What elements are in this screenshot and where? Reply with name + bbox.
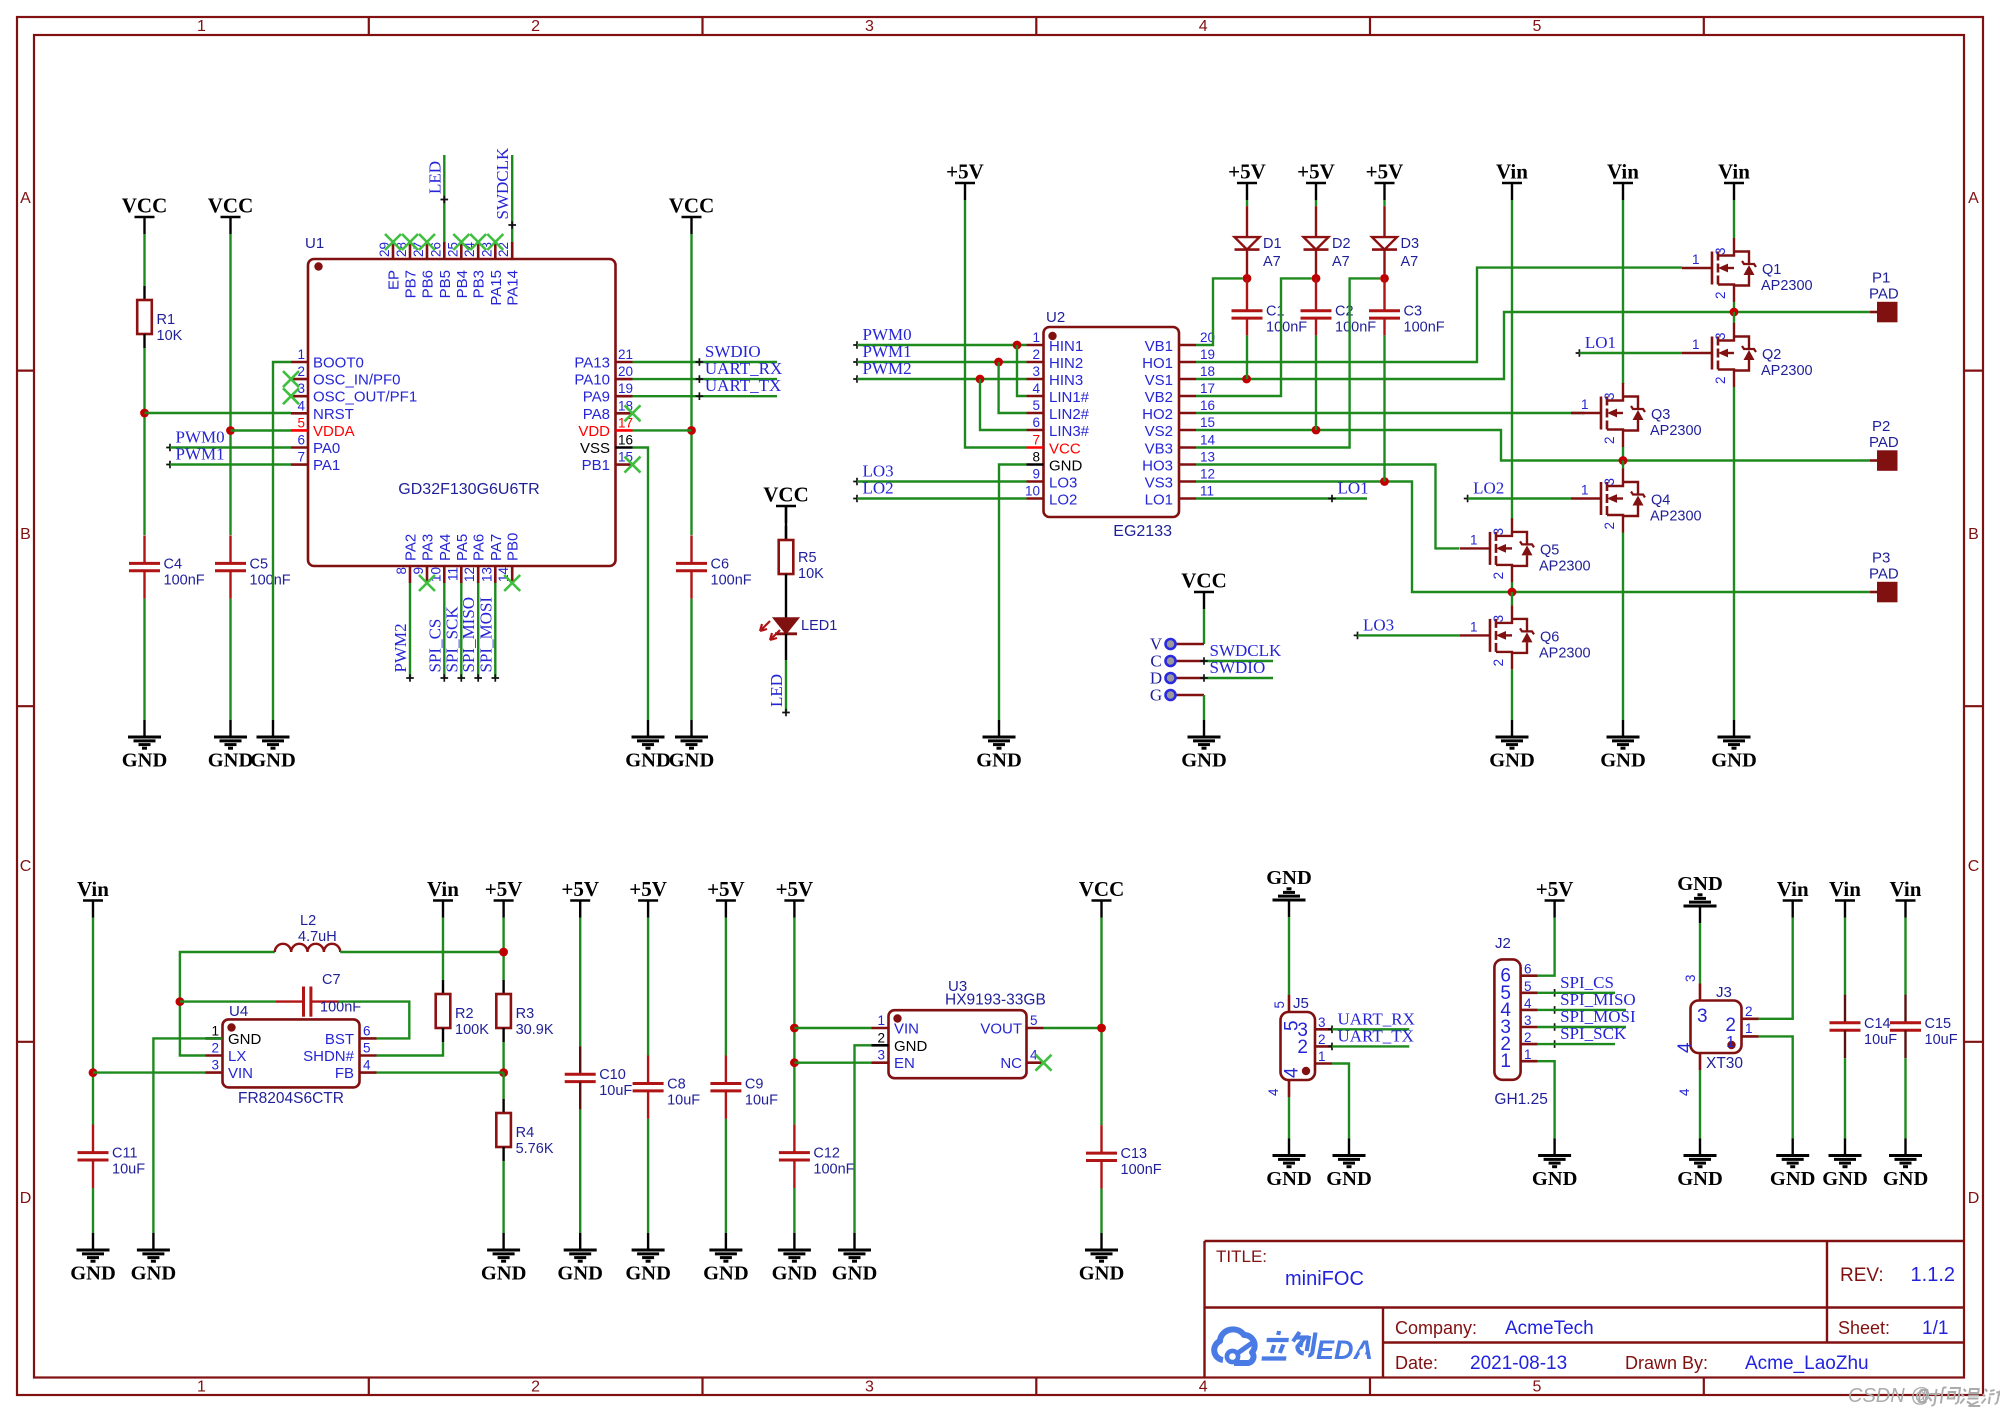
svg-text:VCC: VCC bbox=[208, 194, 254, 218]
svg-text:AP2300: AP2300 bbox=[1761, 363, 1813, 379]
svg-text:2: 2 bbox=[1491, 659, 1506, 667]
net label SPI_MISO bbox=[459, 597, 482, 682]
svg-text:REV:: REV: bbox=[1840, 1265, 1884, 1286]
svg-text:C9: C9 bbox=[745, 1077, 764, 1093]
svg-text:U2: U2 bbox=[1046, 309, 1065, 326]
svg-text:4: 4 bbox=[297, 398, 305, 413]
wire Vin to U4 VIN bbox=[93, 1071, 206, 1073]
svg-text:VS3: VS3 bbox=[1145, 475, 1173, 492]
wire C9 to ground bbox=[725, 1119, 727, 1233]
capacitor C3 top lead bbox=[1383, 278, 1385, 310]
wire C7 to BST bbox=[339, 1002, 410, 1039]
junction U3 VIN bbox=[790, 1024, 799, 1033]
svg-text:3: 3 bbox=[877, 1048, 885, 1063]
power symbol VCC bbox=[208, 194, 254, 235]
svg-text:+5V: +5V bbox=[1366, 160, 1404, 184]
svg-text:PAD: PAD bbox=[1869, 286, 1899, 303]
wire LO1 to Q2 gate bbox=[1579, 352, 1682, 354]
svg-text:2: 2 bbox=[1713, 376, 1728, 384]
svg-text:PA10: PA10 bbox=[574, 372, 610, 389]
net label UART_RX bbox=[1328, 1009, 1415, 1033]
svg-text:Vin: Vin bbox=[1829, 877, 1861, 901]
svg-text:VB2: VB2 bbox=[1145, 389, 1173, 406]
svg-text:100K: 100K bbox=[455, 1022, 489, 1038]
power symbol +5V bbox=[629, 877, 667, 918]
svg-text:GND: GND bbox=[1079, 1263, 1125, 1285]
wire UART_TX J5 bbox=[1332, 1045, 1409, 1047]
svg-text:30.9K: 30.9K bbox=[516, 1022, 554, 1038]
ground bbox=[625, 720, 671, 772]
wire C10 to ground bbox=[579, 1110, 581, 1233]
svg-text:D: D bbox=[1968, 1190, 1980, 1207]
power symbol VCC bbox=[669, 194, 715, 235]
svg-text:Vin: Vin bbox=[427, 877, 459, 901]
wire C14 to ground bbox=[1844, 1058, 1846, 1138]
junction C1/VS1 bbox=[1242, 375, 1251, 384]
svg-text:BST: BST bbox=[325, 1031, 354, 1048]
wire VOUT to VCC rail bbox=[1044, 1027, 1102, 1029]
svg-text:AP2300: AP2300 bbox=[1650, 423, 1702, 439]
wire Vin to R2 bbox=[442, 918, 444, 981]
svg-text:PA3: PA3 bbox=[420, 534, 437, 561]
svg-text:C13: C13 bbox=[1121, 1146, 1148, 1162]
power symbol +5V bbox=[561, 877, 599, 918]
svg-text:GND: GND bbox=[481, 1263, 527, 1285]
svg-text:100nF: 100nF bbox=[250, 572, 291, 588]
wire VCC rail 2 bbox=[229, 234, 231, 535]
svg-text:HO1: HO1 bbox=[1142, 355, 1173, 372]
wire VSS to ground bbox=[633, 448, 649, 721]
wire R2 to SHDN# bbox=[377, 1042, 444, 1056]
wire J3 pin2 to Vin bbox=[1759, 918, 1793, 1019]
wire LO3 to Q6 gate bbox=[1358, 634, 1461, 636]
wire C8 to ground bbox=[647, 1119, 649, 1233]
svg-text:19: 19 bbox=[618, 381, 633, 396]
U1 left pins bbox=[291, 347, 417, 474]
junction NRST/VCC rail bbox=[140, 409, 149, 418]
no-connect U1 pin 2 bbox=[283, 371, 299, 387]
svg-text:2: 2 bbox=[1725, 1015, 1736, 1036]
capacitor C4 bbox=[129, 535, 205, 598]
svg-text:Vin: Vin bbox=[1777, 877, 1809, 901]
svg-text:10uF: 10uF bbox=[1925, 1032, 1958, 1048]
svg-text:PA15: PA15 bbox=[488, 270, 505, 306]
ground bbox=[1600, 720, 1646, 772]
svg-text:R2: R2 bbox=[455, 1006, 474, 1022]
svg-text:6: 6 bbox=[297, 433, 305, 448]
wire LX to L2 bbox=[180, 952, 275, 1056]
svg-text:3: 3 bbox=[1713, 247, 1728, 255]
wire +5V to L2/R3 bbox=[502, 918, 504, 981]
power symbol +5V bbox=[707, 877, 745, 918]
wire C6 to ground bbox=[690, 599, 692, 720]
wire LO1 stub bbox=[1196, 497, 1367, 499]
border row ticks bbox=[17, 371, 1983, 1042]
wire LIN2# bbox=[999, 362, 1027, 413]
svg-text:4: 4 bbox=[1677, 1088, 1692, 1096]
svg-text:PWM2: PWM2 bbox=[863, 359, 912, 378]
transistor Q2 bbox=[1682, 323, 1813, 387]
EasyEDA logo bbox=[1214, 1329, 1254, 1363]
svg-text:6: 6 bbox=[1524, 962, 1532, 977]
svg-text:C15: C15 bbox=[1925, 1016, 1952, 1032]
junction Vin/U4 bbox=[89, 1068, 98, 1077]
junction LX/C7 bbox=[176, 997, 185, 1006]
wire VCC rail bbox=[1100, 918, 1102, 1126]
wire SWDCLK pad bbox=[1204, 660, 1273, 662]
svg-text:VCC: VCC bbox=[1079, 877, 1125, 901]
svg-text:7: 7 bbox=[1032, 433, 1040, 448]
svg-text:5: 5 bbox=[1533, 1379, 1542, 1396]
wire SPI_SCK bbox=[460, 583, 462, 678]
svg-text:A7: A7 bbox=[1263, 254, 1281, 270]
svg-text:FR8204S6CTR: FR8204S6CTR bbox=[238, 1090, 344, 1107]
svg-text:LO2: LO2 bbox=[1473, 479, 1504, 498]
svg-text:LO2: LO2 bbox=[1049, 492, 1077, 509]
wire SPI_CS bbox=[1538, 992, 1615, 994]
ground bbox=[772, 1233, 818, 1285]
svg-text:AP2300: AP2300 bbox=[1539, 558, 1591, 574]
svg-text:VOUT: VOUT bbox=[980, 1021, 1022, 1038]
net label LO1 bbox=[1576, 333, 1616, 357]
svg-text:GND: GND bbox=[703, 1263, 749, 1285]
svg-text:2: 2 bbox=[1297, 1037, 1308, 1058]
svg-text:AP2300: AP2300 bbox=[1650, 509, 1702, 525]
svg-text:+5V: +5V bbox=[1228, 160, 1266, 184]
svg-text:SHDN#: SHDN# bbox=[303, 1048, 355, 1065]
mcu U1 body bbox=[305, 235, 616, 566]
wire SWDIO bbox=[633, 361, 778, 363]
wire C15 to ground bbox=[1904, 1058, 1906, 1138]
svg-text:4: 4 bbox=[1282, 1067, 1303, 1078]
svg-text:Company:: Company: bbox=[1395, 1318, 1477, 1338]
wire SPI_MOSI bbox=[494, 583, 496, 678]
capacitor C15 bbox=[1890, 995, 1958, 1058]
svg-text:AP2300: AP2300 bbox=[1539, 645, 1591, 661]
wire C11 to ground bbox=[92, 1188, 94, 1233]
net label UART_TX bbox=[696, 376, 782, 400]
wire LED net bbox=[443, 155, 445, 242]
wire VCC to V pad bbox=[1203, 609, 1205, 644]
svg-text:PB6: PB6 bbox=[420, 270, 437, 298]
wire +5V to D2 bbox=[1315, 200, 1317, 206]
svg-text:A7: A7 bbox=[1401, 254, 1419, 270]
svg-text:GND: GND bbox=[1770, 1168, 1816, 1190]
svg-text:C3: C3 bbox=[1404, 304, 1423, 320]
svg-text:GND: GND bbox=[894, 1038, 928, 1055]
svg-text:10uF: 10uF bbox=[112, 1162, 145, 1178]
svg-text:HO3: HO3 bbox=[1142, 458, 1173, 475]
border column ticks top bbox=[369, 17, 1704, 1395]
wire C1 to VS1 bbox=[1246, 335, 1248, 379]
svg-text:PWM2: PWM2 bbox=[391, 623, 410, 672]
net label SPI_SCK bbox=[442, 606, 465, 682]
no-connect U1 pin 23 bbox=[487, 234, 503, 250]
wire +5V to U2 VCC bbox=[965, 200, 1027, 448]
svg-text:U1: U1 bbox=[305, 235, 324, 252]
svg-text:C4: C4 bbox=[164, 556, 183, 572]
svg-text:Q5: Q5 bbox=[1540, 542, 1559, 558]
svg-text:PAD: PAD bbox=[1869, 566, 1899, 583]
svg-text:3: 3 bbox=[211, 1058, 219, 1073]
wire FB to R4 bbox=[502, 1073, 504, 1099]
svg-text:A: A bbox=[1968, 190, 1979, 207]
wire PWM1 bbox=[170, 463, 291, 465]
svg-text:NRST: NRST bbox=[313, 406, 354, 423]
junction bbox=[1013, 341, 1022, 350]
U3 right pins bbox=[980, 1013, 1043, 1072]
power symbol Vin bbox=[1496, 160, 1528, 201]
wire VB1 bbox=[1196, 278, 1243, 345]
capacitor C2 bbox=[1301, 304, 1377, 336]
capacitor C8 bbox=[633, 1056, 701, 1119]
svg-text:13: 13 bbox=[479, 567, 494, 582]
svg-text:GH1.25: GH1.25 bbox=[1494, 1091, 1547, 1108]
wire LO2 to Q4 gate bbox=[1468, 497, 1571, 499]
power symbol +5V bbox=[1228, 160, 1266, 201]
ground bbox=[669, 720, 715, 772]
svg-text:C7: C7 bbox=[322, 972, 341, 988]
wire +5V to D3 bbox=[1383, 200, 1385, 206]
junction VOUT bbox=[1097, 1024, 1106, 1033]
wire HO2 bbox=[1196, 412, 1585, 414]
power symbol VCC bbox=[763, 483, 809, 524]
svg-text:LX: LX bbox=[228, 1048, 246, 1065]
capacitor C3 bbox=[1369, 304, 1445, 336]
junction D1/C1 bbox=[1243, 274, 1252, 283]
junction bbox=[976, 375, 985, 384]
svg-text:PA0: PA0 bbox=[313, 440, 340, 457]
ground bbox=[208, 720, 254, 772]
junction D2/C2 bbox=[1312, 274, 1321, 283]
wire Vin rail to Q3 bbox=[1622, 200, 1624, 384]
svg-text:5: 5 bbox=[1030, 1013, 1038, 1028]
svg-text:4: 4 bbox=[1199, 18, 1208, 35]
svg-text:Q4: Q4 bbox=[1651, 493, 1670, 509]
svg-text:LED: LED bbox=[767, 674, 786, 707]
svg-text:10K: 10K bbox=[157, 328, 183, 344]
svg-text:SPI_MOSI: SPI_MOSI bbox=[476, 597, 495, 673]
svg-text:LED1: LED1 bbox=[801, 618, 837, 634]
junction D3/C3 bbox=[1380, 274, 1389, 283]
power symbol VCC bbox=[1079, 877, 1125, 918]
power symbol Vin bbox=[427, 877, 459, 918]
gate driver U2 body bbox=[1044, 309, 1180, 540]
svg-text:4.7uH: 4.7uH bbox=[298, 929, 337, 945]
svg-text:16: 16 bbox=[618, 433, 633, 448]
svg-text:Q6: Q6 bbox=[1540, 629, 1559, 645]
svg-text:5: 5 bbox=[1032, 398, 1040, 413]
svg-text:GND: GND bbox=[131, 1263, 177, 1285]
wire UART_TX bbox=[633, 395, 778, 397]
wire L2 to +5V rail bbox=[340, 951, 503, 953]
test pad C bbox=[1150, 652, 1204, 671]
svg-text:2: 2 bbox=[531, 1379, 540, 1396]
svg-text:4: 4 bbox=[1032, 381, 1040, 396]
svg-text:PAD: PAD bbox=[1869, 434, 1899, 451]
svg-text:21: 21 bbox=[618, 347, 633, 362]
svg-text:4: 4 bbox=[1675, 1042, 1696, 1053]
no-connect U1 pin 28 bbox=[402, 234, 418, 250]
wire C2 bottom bbox=[1315, 318, 1317, 335]
wire R1 to NRST/C4 bbox=[143, 348, 145, 535]
ground bbox=[1266, 1139, 1312, 1191]
wire Q4 source to ground bbox=[1622, 533, 1624, 721]
wire U2 GND to ground bbox=[999, 465, 1027, 721]
wire LIN3# bbox=[980, 379, 1027, 430]
svg-text:1: 1 bbox=[1745, 1021, 1753, 1036]
wire VCC to R1 bbox=[143, 234, 145, 286]
svg-text:R4: R4 bbox=[516, 1125, 535, 1141]
svg-text:PA1: PA1 bbox=[313, 457, 340, 474]
power symbol Vin bbox=[1829, 877, 1861, 918]
svg-text:PB4: PB4 bbox=[454, 270, 471, 298]
svg-text:GND: GND bbox=[1711, 750, 1757, 772]
wire LO3 bbox=[857, 480, 1027, 482]
ground bbox=[557, 1233, 603, 1285]
transistor Q1 bbox=[1682, 238, 1813, 302]
net label PWM1 bbox=[853, 342, 911, 366]
wire UART_RX J5 bbox=[1332, 1028, 1409, 1030]
wire R5 to LED1 bbox=[785, 588, 787, 618]
svg-text:GND: GND bbox=[1049, 458, 1083, 475]
U1 right pins bbox=[574, 347, 633, 474]
svg-text:2: 2 bbox=[211, 1041, 219, 1056]
wire PWM2 bbox=[409, 583, 411, 678]
power symbol Vin bbox=[1607, 160, 1639, 201]
wire VB2 bbox=[1196, 278, 1312, 396]
capacitor C5 bbox=[215, 535, 291, 598]
svg-text:VCC: VCC bbox=[669, 194, 715, 218]
net label SPI_MOSI bbox=[476, 597, 499, 682]
svg-text:Q2: Q2 bbox=[1762, 347, 1781, 363]
ground bbox=[976, 720, 1022, 772]
svg-text:1: 1 bbox=[877, 1013, 885, 1028]
svg-text:UART_TX: UART_TX bbox=[1338, 1026, 1414, 1045]
wire VDDA bbox=[231, 429, 292, 431]
svg-text:XT30: XT30 bbox=[1706, 1055, 1743, 1072]
svg-text:VCC: VCC bbox=[1181, 569, 1227, 593]
transistor Q5 bbox=[1460, 518, 1591, 582]
pad P3 bbox=[1869, 550, 1899, 602]
svg-text:Vin: Vin bbox=[1607, 160, 1639, 184]
ground bbox=[1711, 720, 1757, 772]
svg-text:R3: R3 bbox=[516, 1006, 535, 1022]
wire +5V to D1 bbox=[1246, 200, 1248, 206]
svg-text:4: 4 bbox=[1524, 996, 1532, 1011]
U2 left pins bbox=[1025, 330, 1090, 509]
svg-text:14: 14 bbox=[1200, 433, 1216, 448]
ground bbox=[131, 1233, 177, 1285]
svg-text:VIN: VIN bbox=[228, 1065, 253, 1082]
wire C5 to ground bbox=[229, 599, 231, 720]
svg-text:PA2: PA2 bbox=[403, 534, 420, 561]
capacitor C6 bbox=[676, 535, 752, 598]
wire Q5 source to phase node bbox=[1511, 582, 1513, 592]
svg-text:5.76K: 5.76K bbox=[516, 1141, 554, 1157]
svg-text:C12: C12 bbox=[813, 1146, 840, 1162]
net label LO2 bbox=[853, 479, 893, 503]
svg-text:GND: GND bbox=[208, 750, 254, 772]
svg-text:6: 6 bbox=[1032, 415, 1040, 430]
wire C2 to VS2 bbox=[1315, 335, 1317, 430]
wire U3 GND to ground bbox=[855, 1045, 872, 1233]
svg-text:PB3: PB3 bbox=[471, 270, 488, 298]
U4 right pins bbox=[303, 1023, 376, 1082]
wire VCC rail 3 bbox=[690, 234, 692, 535]
power symbol +5V bbox=[485, 877, 523, 918]
resistor R1 bbox=[137, 286, 182, 348]
svg-text:GND: GND bbox=[976, 750, 1022, 772]
svg-text:1: 1 bbox=[1032, 330, 1040, 345]
test pad D bbox=[1150, 669, 1204, 688]
svg-text:1: 1 bbox=[1692, 337, 1700, 352]
svg-text:NC: NC bbox=[1000, 1055, 1022, 1072]
svg-text:PA6: PA6 bbox=[471, 534, 488, 561]
net label SWDIO bbox=[696, 342, 761, 366]
svg-text:1: 1 bbox=[1470, 532, 1478, 547]
svg-text:2: 2 bbox=[1745, 1004, 1753, 1019]
svg-text:D3: D3 bbox=[1401, 236, 1420, 252]
svg-text:2: 2 bbox=[1032, 347, 1040, 362]
ground bbox=[1822, 1139, 1868, 1191]
svg-text:LO3: LO3 bbox=[1049, 475, 1077, 492]
diode D1 bbox=[1235, 206, 1282, 278]
svg-text:J2: J2 bbox=[1495, 935, 1511, 952]
power symbol +5V bbox=[1297, 160, 1335, 201]
svg-text:1: 1 bbox=[197, 1379, 206, 1396]
svg-text:3: 3 bbox=[865, 18, 874, 35]
svg-text:1: 1 bbox=[1470, 619, 1478, 634]
ground bbox=[703, 1233, 749, 1285]
svg-text:+5V: +5V bbox=[1536, 877, 1574, 901]
svg-text:GND: GND bbox=[832, 1263, 878, 1285]
svg-text:1: 1 bbox=[211, 1023, 219, 1038]
capacitor C9 bbox=[710, 1056, 778, 1119]
svg-text:HIN1: HIN1 bbox=[1049, 338, 1083, 355]
ground bbox=[1079, 1233, 1125, 1285]
test pad V bbox=[1150, 635, 1204, 654]
svg-text:GND: GND bbox=[1489, 750, 1535, 772]
svg-text:1: 1 bbox=[1581, 397, 1589, 412]
svg-text:C: C bbox=[20, 858, 32, 875]
wire SWDIO pad bbox=[1204, 677, 1273, 679]
wire C7 left bbox=[180, 1000, 276, 1002]
svg-text:PB0: PB0 bbox=[505, 533, 522, 561]
svg-text:GND: GND bbox=[1266, 867, 1312, 889]
svg-text:P1: P1 bbox=[1872, 270, 1890, 287]
wire Vin rail to Q5 bbox=[1511, 200, 1513, 520]
net label SPI_CS bbox=[425, 619, 448, 682]
ground bbox=[1532, 1139, 1578, 1191]
svg-text:Q3: Q3 bbox=[1651, 407, 1670, 423]
no-connect U1 pin 24 bbox=[470, 234, 486, 250]
svg-text:2: 2 bbox=[1602, 522, 1617, 530]
svg-text:VS1: VS1 bbox=[1145, 372, 1173, 389]
ldo U3 body bbox=[889, 978, 1046, 1078]
svg-text:VB3: VB3 bbox=[1145, 441, 1173, 458]
svg-text:HX9193-33GB: HX9193-33GB bbox=[945, 992, 1046, 1009]
svg-text:GND: GND bbox=[250, 750, 296, 772]
svg-text:3: 3 bbox=[1491, 528, 1506, 536]
junction +5V/L2/R3 bbox=[499, 948, 508, 957]
svg-text:20: 20 bbox=[618, 364, 633, 379]
svg-text:4: 4 bbox=[363, 1058, 371, 1073]
no-connect U1 pin 15 bbox=[625, 457, 641, 473]
svg-text:C11: C11 bbox=[112, 1146, 138, 1162]
junction phase P2 bbox=[1619, 456, 1628, 465]
svg-text:1: 1 bbox=[1318, 1049, 1326, 1064]
